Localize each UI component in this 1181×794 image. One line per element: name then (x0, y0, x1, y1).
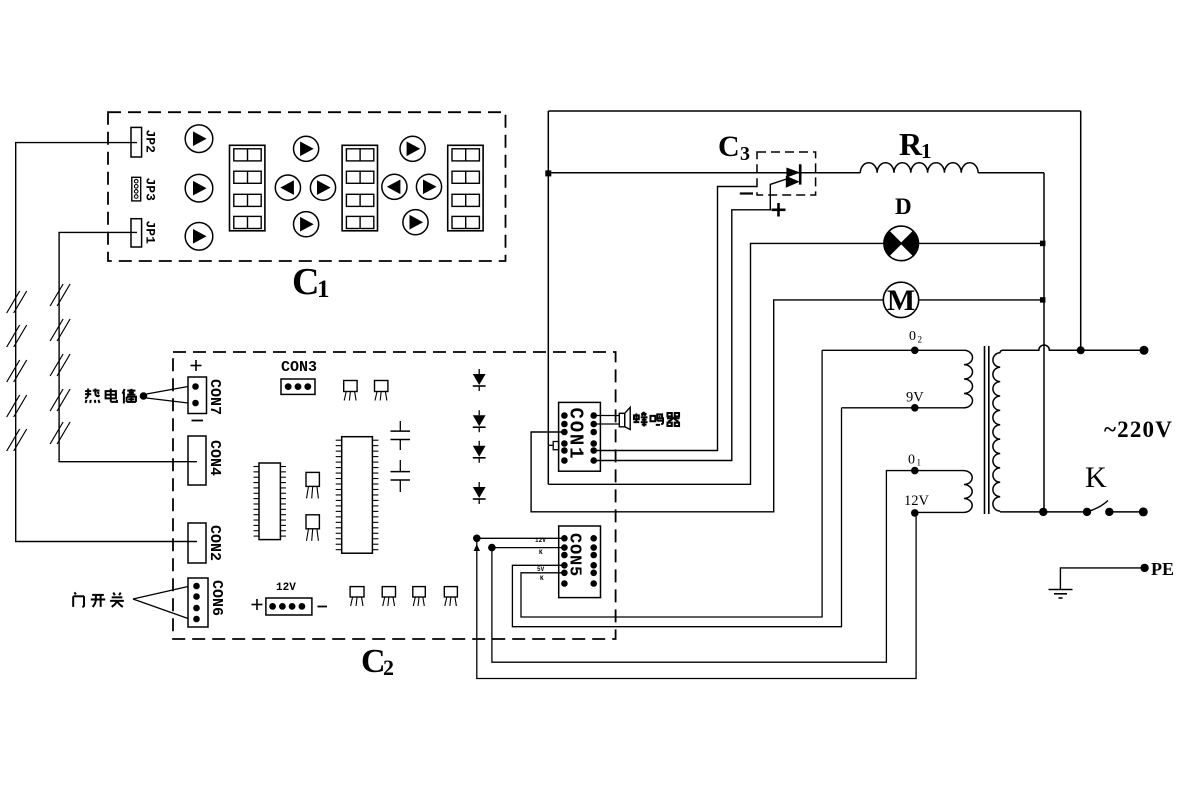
svg-text:1: 1 (917, 458, 922, 468)
svg-text:K: K (540, 575, 544, 582)
svg-text:2: 2 (383, 655, 394, 680)
svg-text:3: 3 (740, 143, 750, 165)
svg-text:1: 1 (317, 276, 330, 303)
svg-text:CON6: CON6 (208, 580, 225, 616)
svg-text:M: M (887, 284, 915, 317)
svg-text:~220V: ~220V (1104, 417, 1173, 442)
svg-text:12V: 12V (276, 582, 296, 594)
svg-text:CON1: CON1 (565, 408, 587, 461)
svg-text:CON5: CON5 (565, 533, 584, 577)
svg-text:JP1: JP1 (143, 221, 158, 245)
svg-text:2: 2 (918, 335, 923, 345)
svg-text:0: 0 (908, 453, 915, 468)
svg-text:C: C (361, 643, 386, 680)
svg-text:C: C (292, 261, 319, 303)
svg-text:JP2: JP2 (143, 130, 158, 154)
svg-text:C: C (718, 130, 740, 163)
svg-text:5V: 5V (537, 566, 545, 573)
svg-text:CON2: CON2 (206, 525, 223, 561)
svg-text:CON7: CON7 (206, 379, 223, 415)
svg-text:CON3: CON3 (281, 359, 317, 376)
svg-text:R: R (899, 126, 923, 162)
svg-text:D: D (895, 194, 912, 219)
svg-text:CON4: CON4 (206, 440, 223, 476)
svg-text:PE: PE (1151, 559, 1174, 579)
svg-text:K: K (1085, 461, 1107, 494)
svg-text:0: 0 (909, 329, 916, 344)
svg-text:1: 1 (921, 139, 932, 163)
svg-text:9V: 9V (906, 390, 924, 406)
svg-text:12V: 12V (904, 493, 930, 509)
svg-text:K: K (539, 549, 543, 556)
svg-text:JP3: JP3 (143, 178, 158, 202)
